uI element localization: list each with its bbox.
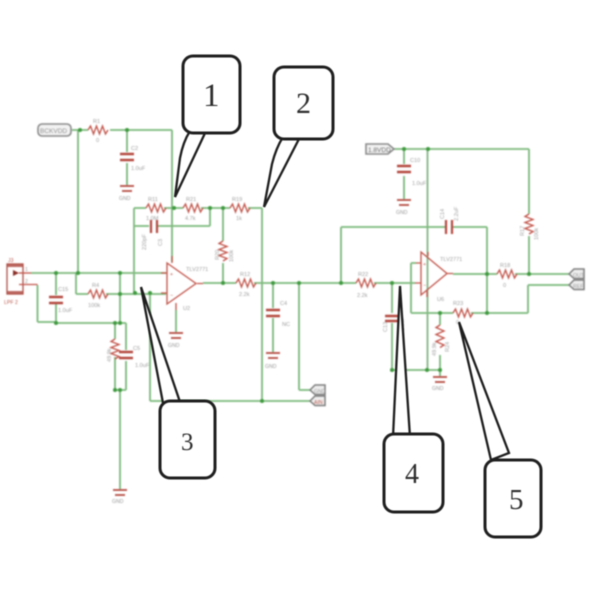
svg-text:1: 1: [203, 78, 220, 114]
svg-text:3: 3: [181, 429, 194, 456]
svg-text:2: 2: [296, 87, 311, 120]
svg-text:4: 4: [405, 459, 419, 490]
svg-text:5: 5: [509, 484, 524, 516]
